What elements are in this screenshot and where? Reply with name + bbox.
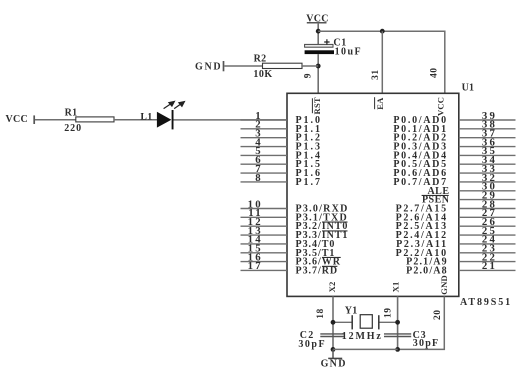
wire pin 11 lead xyxy=(241,216,288,218)
svg-text:18: 18 xyxy=(316,308,326,319)
wire pin 36 lead xyxy=(459,146,516,148)
pin label PSEN xyxy=(422,195,450,206)
wire crystal right xyxy=(379,321,398,323)
svg-text:8: 8 xyxy=(255,172,263,184)
svg-text:VCC: VCC xyxy=(6,114,29,125)
wire pin 24 lead xyxy=(459,243,516,245)
svg-text:P1.7: P1.7 xyxy=(296,177,322,188)
svg-text:P3.7/RD: P3.7/RD xyxy=(296,265,339,276)
wire pin 38 lead xyxy=(459,128,516,130)
svg-text:RST: RST xyxy=(312,97,322,114)
svg-text:10uF: 10uF xyxy=(335,47,362,58)
wire pin 7 lead xyxy=(241,172,288,174)
svg-text:GND: GND xyxy=(321,358,347,369)
junction R2 branch xyxy=(316,64,321,69)
wire pin 14 lead xyxy=(241,243,288,245)
wire pin 1 lead xyxy=(241,119,288,121)
pin label P3.6/WR xyxy=(296,257,341,268)
svg-text:21: 21 xyxy=(482,260,497,272)
svg-text:X2: X2 xyxy=(327,281,337,292)
junction EA branch xyxy=(380,29,385,34)
svg-text:AT89S51: AT89S51 xyxy=(460,297,512,308)
node VCC (left supply) xyxy=(6,114,35,125)
crystal Y1 xyxy=(342,306,383,342)
svg-text:20: 20 xyxy=(433,310,443,321)
wire C1 to RST pin 9 xyxy=(317,54,319,93)
IC U1 body AT89S51 xyxy=(287,93,459,296)
svg-text:9: 9 xyxy=(304,73,314,78)
wire pin 27 lead xyxy=(459,216,516,218)
wire ground rail xyxy=(333,348,398,350)
LED L1 xyxy=(141,101,185,129)
svg-text:VCC: VCC xyxy=(436,97,446,116)
svg-text:R2: R2 xyxy=(254,53,267,64)
wire pin 10 lead xyxy=(241,208,288,210)
svg-text:Y1: Y1 xyxy=(345,306,358,317)
pin label P3.2/INT0 xyxy=(296,221,349,232)
resistor R2 xyxy=(253,53,302,80)
svg-text:R1: R1 xyxy=(65,107,78,118)
wire pin 3 lead xyxy=(241,137,288,139)
wire pin 23 lead xyxy=(459,252,516,254)
wire pin 21 lead xyxy=(459,269,516,271)
pin label P3.7/RD xyxy=(296,265,339,276)
svg-text:19: 19 xyxy=(384,307,394,318)
capacitor C1 xyxy=(305,38,362,58)
junction X2/crystal xyxy=(331,320,336,325)
wire R1 to LED L1 xyxy=(114,119,157,121)
svg-text:10K: 10K xyxy=(253,69,272,80)
wire pin 17 lead xyxy=(241,269,288,271)
wire VCC rail to pin 40 xyxy=(318,31,445,93)
capacitor C3 xyxy=(384,330,439,349)
svg-text:30pF: 30pF xyxy=(298,339,326,350)
wire pin 34 lead xyxy=(459,163,516,165)
wire crystal left xyxy=(333,321,352,323)
svg-text:U1: U1 xyxy=(462,82,475,93)
pin name EA (overline) xyxy=(375,97,385,110)
wire pin 32 lead xyxy=(459,181,516,183)
wire pin 25 lead xyxy=(459,234,516,236)
wire pin 2 lead xyxy=(241,128,288,130)
wire pin 39 lead xyxy=(459,119,516,121)
junction C3/ground rail xyxy=(395,347,400,352)
wire pin 5 lead xyxy=(241,154,288,156)
svg-text:GND: GND xyxy=(439,275,449,295)
wire pin 37 lead xyxy=(459,137,516,139)
wire VCC down to C1 xyxy=(317,23,319,45)
node GND (at R2) xyxy=(195,61,224,73)
wire pin 26 lead xyxy=(459,225,516,227)
wire pin 35 lead xyxy=(459,154,516,156)
junction X1/crystal xyxy=(395,320,400,325)
wire X1 pin 19 xyxy=(397,296,399,349)
wire pin 15 lead xyxy=(241,252,288,254)
capacitor C2 xyxy=(298,330,344,350)
pin name RST (overline) xyxy=(312,97,322,114)
svg-text:L1: L1 xyxy=(141,113,153,123)
node VCC (top supply) xyxy=(306,14,329,25)
svg-text:X1: X1 xyxy=(391,281,401,292)
svg-text:220: 220 xyxy=(64,123,82,134)
wire VCC to R1 xyxy=(35,119,76,121)
junction C2/ground rail xyxy=(331,347,336,352)
svg-text:EA: EA xyxy=(375,97,385,110)
wire LED to pin 1 (P1.0) xyxy=(174,119,288,121)
wire pin 22 lead xyxy=(459,261,516,263)
wire pin 4 lead xyxy=(241,146,288,148)
wire pin 13 lead xyxy=(241,234,288,236)
wire pin 28 lead xyxy=(459,208,516,210)
pin label P3.3/INT1 xyxy=(296,230,349,241)
svg-text:GND: GND xyxy=(195,62,222,73)
svg-text:30pF: 30pF xyxy=(413,338,439,349)
wire X2 pin 18 xyxy=(332,296,334,349)
svg-text:17: 17 xyxy=(248,260,263,272)
wire GND pin 20 xyxy=(398,296,445,349)
wire pin 29 lead xyxy=(459,199,516,201)
svg-text:40: 40 xyxy=(430,67,440,78)
wire R2 to RST node xyxy=(302,65,318,67)
svg-text:31: 31 xyxy=(371,69,381,80)
wire EA pin 31 xyxy=(381,31,383,93)
wire pin 16 lead xyxy=(241,261,288,263)
svg-text:P2.0/A8: P2.0/A8 xyxy=(406,265,448,276)
resistor R1 xyxy=(64,107,114,133)
wire GND to R2 xyxy=(224,65,262,67)
wire pin 33 lead xyxy=(459,172,516,174)
wire pin 30 lead xyxy=(459,190,516,192)
wire pin 12 lead xyxy=(241,225,288,227)
wire pin 8 lead xyxy=(241,181,288,183)
wire pin 6 lead xyxy=(241,163,288,165)
ground GND (bottom) xyxy=(321,349,347,369)
svg-text:12MHz: 12MHz xyxy=(342,331,383,342)
junction VCC branch xyxy=(316,29,321,34)
